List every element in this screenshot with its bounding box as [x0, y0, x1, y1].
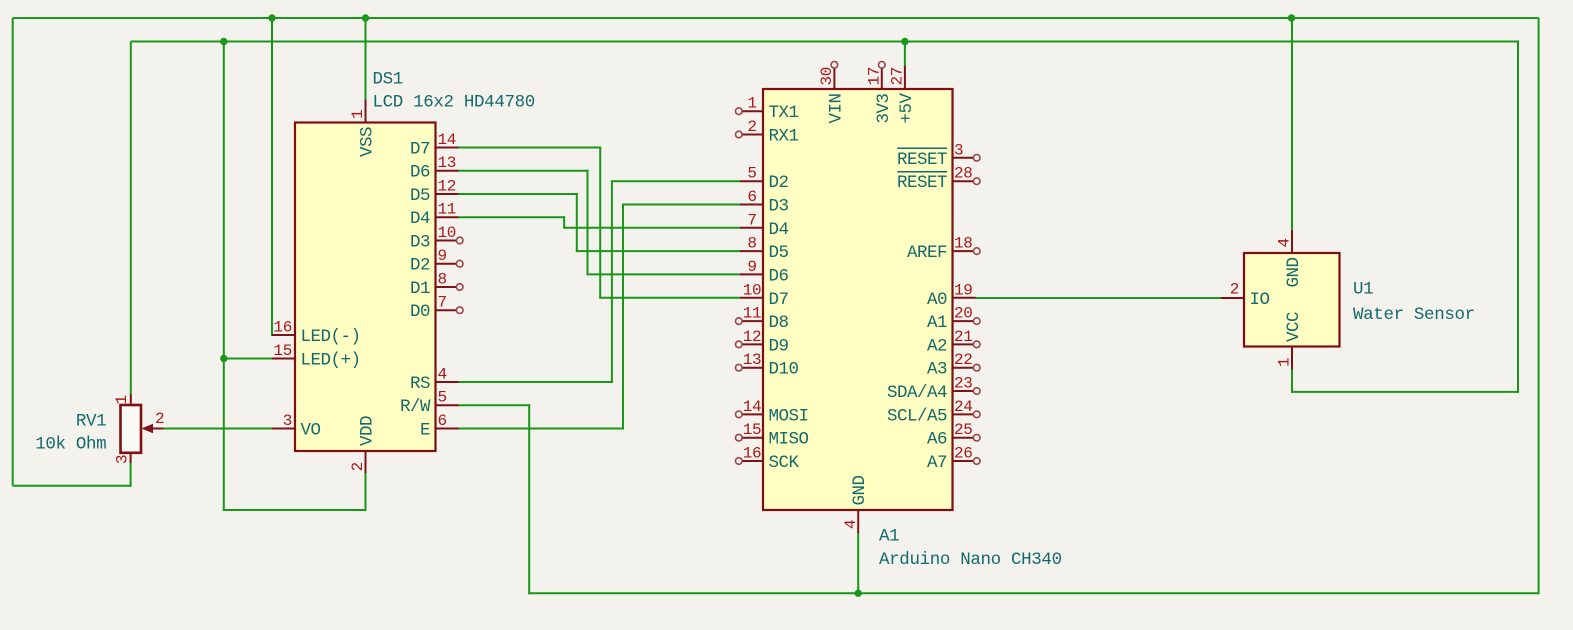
- svg-text:R/W: R/W: [400, 397, 431, 417]
- LCD pin 14 D7: [410, 131, 459, 160]
- svg-text:2: 2: [1230, 281, 1239, 299]
- wire to Arduino D6: [587, 273, 741, 275]
- svg-text:VDD: VDD: [358, 416, 378, 446]
- LCD value: [373, 93, 535, 113]
- svg-text:SCL/A5: SCL/A5: [887, 406, 947, 426]
- wire Arduino GND drop: [857, 532, 859, 594]
- wire +5V drop to Arduino: [904, 42, 906, 67]
- LCD pin 9 D2: [410, 247, 463, 276]
- RV1 pin 2 wiper: [142, 410, 165, 433]
- junction GND rail: [855, 590, 862, 597]
- U1 reference: [1353, 280, 1373, 300]
- LCD pin 10 D3: [410, 224, 463, 253]
- wire right edge vertical: [1538, 18, 1540, 594]
- LCD DS1 body: [295, 123, 436, 452]
- svg-text:D3: D3: [410, 233, 430, 253]
- svg-text:11: 11: [743, 305, 762, 323]
- svg-text:D5: D5: [410, 186, 430, 206]
- Arduino A1 body: [763, 89, 953, 510]
- svg-text:5: 5: [747, 165, 756, 183]
- svg-text:7: 7: [438, 294, 447, 312]
- svg-text:22: 22: [954, 351, 973, 369]
- svg-text:A3: A3: [927, 360, 947, 380]
- svg-text:D8: D8: [769, 313, 789, 333]
- wire RV1 wiper to VO: [164, 428, 274, 430]
- wire A0 to water sensor IO: [975, 297, 1222, 299]
- Arduino pin 8 D5: [740, 235, 789, 264]
- svg-text:23: 23: [954, 375, 973, 393]
- wire LCD RS horizontal: [459, 381, 613, 383]
- LCD pin 15 LED(+): [272, 342, 361, 371]
- svg-text:27: 27: [889, 67, 907, 86]
- svg-text:24: 24: [954, 398, 973, 416]
- svg-text:D0: D0: [410, 302, 430, 322]
- LCD pin 4 RS: [410, 366, 459, 395]
- Arduino pin 10 D7: [740, 281, 789, 310]
- svg-text:4: 4: [1276, 238, 1294, 247]
- svg-text:13: 13: [438, 154, 457, 172]
- svg-text:2: 2: [155, 410, 164, 428]
- svg-text:D6: D6: [410, 163, 430, 183]
- Arduino pin 14 MOSI: [736, 398, 809, 427]
- wire RV1 pin3 drop: [130, 463, 132, 487]
- LCD pin 13 D6: [410, 154, 459, 183]
- Arduino pin 1 TX1: [736, 95, 799, 124]
- LCD pin 16 LED(-): [272, 319, 361, 348]
- Arduino pin 6 D3: [740, 188, 789, 217]
- wire water sensor VCC drop: [1291, 369, 1293, 393]
- LCD pin 5 R/W: [400, 389, 459, 418]
- svg-text:AREF: AREF: [907, 243, 947, 263]
- svg-text:A7: A7: [927, 453, 947, 473]
- svg-text:25: 25: [954, 421, 973, 439]
- svg-text:12: 12: [743, 328, 762, 346]
- svg-text:A2: A2: [927, 336, 947, 356]
- svg-text:12: 12: [438, 178, 457, 196]
- svg-text:RV1: RV1: [76, 412, 106, 432]
- junction LED(-): [268, 14, 275, 21]
- wire LCD D7 horizontal: [459, 147, 602, 149]
- Arduino pin 27 +5V: [889, 66, 917, 124]
- LCD reference DS1: [373, 70, 403, 90]
- wire to Arduino D7: [599, 297, 740, 299]
- Arduino pin 23 SDA/A4: [887, 375, 980, 404]
- wire to LCD LED(+): [224, 358, 273, 360]
- water sensor U1 body: [1244, 253, 1340, 347]
- LCD pin 11 D4: [410, 201, 459, 230]
- Arduino pin 15 MISO: [736, 421, 809, 450]
- svg-text:14: 14: [438, 131, 457, 149]
- wire water sensor GND vertical: [1291, 18, 1293, 231]
- svg-text:VO: VO: [301, 421, 321, 441]
- Arduino pin 28 RESET: [897, 165, 980, 194]
- wire bottom GND rail: [528, 592, 1538, 594]
- Arduino pin 13 D10: [736, 351, 799, 380]
- svg-text:19: 19: [954, 281, 973, 299]
- svg-text:3: 3: [283, 412, 292, 430]
- svg-text:30: 30: [818, 67, 836, 86]
- wire RV1 pin1 vertical: [130, 42, 132, 395]
- wire LCD D7 vertical: [599, 147, 601, 298]
- wire LCD D5 vertical: [576, 193, 578, 251]
- svg-text:Arduino Nano CH340: Arduino Nano CH340: [879, 550, 1062, 570]
- wire VSS vertical: [365, 18, 367, 101]
- svg-text:10: 10: [438, 224, 457, 242]
- svg-text:3: 3: [114, 455, 132, 464]
- svg-text:RESET: RESET: [897, 173, 947, 193]
- svg-text:5: 5: [438, 389, 447, 407]
- U1 pin 4 GND: [1276, 230, 1304, 288]
- wire to Arduino D4: [563, 227, 740, 229]
- Arduino pin 16 SCK: [736, 445, 800, 474]
- wire LCD D4 vertical: [563, 216, 565, 228]
- svg-text:D2: D2: [410, 256, 430, 276]
- Arduino pin 18 AREF: [907, 235, 980, 264]
- svg-text:8: 8: [747, 235, 756, 253]
- Arduino pin 24 SCL/A5: [887, 398, 980, 427]
- svg-text:A1: A1: [879, 527, 899, 547]
- svg-text:14: 14: [743, 398, 762, 416]
- LCD pin 7 D0: [410, 294, 463, 323]
- svg-text:GND: GND: [1284, 258, 1304, 288]
- svg-text:18: 18: [954, 235, 973, 253]
- wire VDD vertical: [365, 473, 367, 511]
- svg-text:15: 15: [273, 342, 292, 360]
- Arduino pin 3 RESET: [897, 141, 980, 170]
- svg-text:D4: D4: [769, 220, 789, 240]
- svg-text:SCK: SCK: [769, 453, 800, 473]
- svg-text:15: 15: [743, 421, 762, 439]
- svg-text:D7: D7: [410, 140, 430, 160]
- svg-text:GND: GND: [850, 475, 870, 505]
- U1 pin 1 VCC: [1276, 312, 1304, 370]
- wire VCC horizontal: [1291, 391, 1518, 393]
- svg-text:D1: D1: [410, 279, 430, 299]
- svg-text:1: 1: [747, 95, 756, 113]
- wire RS vertical: [611, 180, 613, 383]
- Arduino value: [879, 550, 1062, 570]
- svg-text:D7: D7: [769, 290, 789, 310]
- svg-text:17: 17: [866, 67, 884, 86]
- svg-text:7: 7: [747, 211, 756, 229]
- svg-text:2: 2: [747, 118, 756, 136]
- U1 value: [1353, 305, 1475, 325]
- svg-text:D10: D10: [769, 360, 799, 380]
- Arduino pin 17 3V3: [866, 62, 894, 124]
- svg-text:LED(+): LED(+): [301, 351, 361, 371]
- svg-text:13: 13: [743, 351, 762, 369]
- svg-text:1: 1: [1276, 358, 1294, 367]
- Arduino pin 9 D6: [740, 258, 789, 287]
- wire left vertical: [12, 18, 14, 486]
- Arduino pin 19 A0: [927, 281, 976, 310]
- svg-text:LCD 16x2 HD44780: LCD 16x2 HD44780: [373, 93, 535, 113]
- svg-text:D9: D9: [769, 336, 789, 356]
- Arduino pin 12 D9: [736, 328, 789, 357]
- potentiometer RV1 body: [121, 405, 142, 453]
- junction rail2/VDD: [220, 38, 227, 45]
- svg-text:IO: IO: [1250, 290, 1270, 310]
- RV1 reference: [76, 412, 106, 432]
- Arduino pin 11 D8: [736, 305, 789, 334]
- wire LCD D4 horizontal: [459, 216, 566, 218]
- LCD pin 8 D1: [410, 271, 463, 300]
- svg-text:SDA/A4: SDA/A4: [887, 383, 947, 403]
- Arduino pin 21 A2: [927, 328, 980, 357]
- junction +5V: [901, 38, 908, 45]
- svg-text:28: 28: [954, 165, 973, 183]
- svg-text:8: 8: [438, 271, 447, 289]
- svg-text:1: 1: [349, 110, 367, 119]
- svg-text:Water Sensor: Water Sensor: [1353, 305, 1475, 325]
- Arduino reference A1: [879, 527, 899, 547]
- wire R/W vertical: [528, 404, 530, 594]
- LCD pin 1 VSS: [349, 100, 377, 158]
- wire vertical to VDD/LED+: [223, 42, 225, 511]
- svg-text:1: 1: [113, 395, 131, 404]
- Arduino pin 25 A6: [927, 421, 980, 450]
- wire LCD E horizontal: [459, 428, 625, 430]
- LCD pin 3 VO: [272, 412, 321, 441]
- svg-text:VCC: VCC: [1284, 312, 1304, 342]
- svg-text:D3: D3: [769, 197, 789, 217]
- svg-text:10: 10: [743, 281, 762, 299]
- Arduino pin 26 A7: [927, 445, 980, 474]
- LCD pin 2 VDD: [349, 416, 377, 473]
- wire LCD D6 vertical: [587, 170, 589, 275]
- Arduino pin 30 VIN: [818, 62, 846, 124]
- wire second rail: [131, 41, 1518, 43]
- wire E vertical: [622, 204, 624, 430]
- wire top rail +5V: [13, 17, 1539, 19]
- svg-text:9: 9: [438, 247, 447, 265]
- wire LCD D6 horizontal: [459, 170, 589, 172]
- svg-text:RESET: RESET: [897, 150, 947, 170]
- RV1 pin 1: [113, 394, 131, 405]
- svg-text:11: 11: [438, 201, 457, 219]
- svg-text:LED(-): LED(-): [301, 327, 361, 347]
- U1 pin 2 IO: [1221, 281, 1270, 311]
- RV1 pin 3: [114, 453, 132, 464]
- junction LED(+): [220, 355, 227, 362]
- svg-text:D6: D6: [769, 266, 789, 286]
- svg-text:A1: A1: [927, 313, 947, 333]
- svg-text:RS: RS: [410, 374, 430, 394]
- svg-text:9: 9: [747, 258, 756, 276]
- svg-text:4: 4: [438, 366, 447, 384]
- RV1 value: [35, 435, 106, 455]
- Arduino pin 20 A1: [927, 305, 980, 334]
- svg-text:+5V: +5V: [897, 93, 917, 124]
- svg-text:D5: D5: [769, 243, 789, 263]
- svg-text:DS1: DS1: [373, 70, 403, 90]
- svg-text:20: 20: [954, 305, 973, 323]
- wire LED(-) vertical: [271, 18, 273, 336]
- svg-text:TX1: TX1: [769, 103, 799, 123]
- svg-text:E: E: [420, 421, 430, 441]
- svg-text:A6: A6: [927, 430, 947, 450]
- wire to Arduino D2: [611, 180, 740, 182]
- svg-text:VSS: VSS: [358, 127, 378, 157]
- svg-text:16: 16: [273, 319, 292, 337]
- wire to Arduino D3: [622, 204, 740, 206]
- svg-text:3V3: 3V3: [874, 94, 894, 124]
- svg-text:D4: D4: [410, 209, 430, 229]
- svg-text:21: 21: [954, 328, 973, 346]
- LCD pin 6 E: [420, 412, 459, 441]
- svg-text:26: 26: [954, 445, 973, 463]
- junction VSS: [362, 14, 369, 21]
- svg-text:6: 6: [747, 188, 756, 206]
- svg-text:D2: D2: [769, 173, 789, 193]
- svg-text:MOSI: MOSI: [769, 406, 809, 426]
- Arduino pin 5 D2: [740, 165, 789, 194]
- svg-text:10k Ohm: 10k Ohm: [35, 435, 106, 455]
- svg-text:4: 4: [842, 520, 860, 529]
- svg-text:MISO: MISO: [769, 430, 809, 450]
- svg-text:RX1: RX1: [769, 127, 799, 147]
- Arduino pin 4 GND: [842, 475, 870, 533]
- svg-text:A0: A0: [927, 290, 947, 310]
- junction U1 GND: [1288, 14, 1295, 21]
- Arduino pin 7 D4: [740, 211, 789, 240]
- wire to Arduino D5: [576, 250, 740, 252]
- wire right-inner vertical: [1517, 41, 1519, 393]
- svg-text:6: 6: [438, 412, 447, 430]
- wire bottom-left horizontal: [13, 485, 132, 487]
- Arduino pin 22 A3: [927, 351, 980, 380]
- svg-text:16: 16: [743, 445, 762, 463]
- wire VDD horizontal: [223, 509, 366, 511]
- wire LCD D5 horizontal: [459, 193, 578, 195]
- svg-text:VIN: VIN: [826, 94, 846, 124]
- wire LCD R/W horizontal: [459, 404, 531, 406]
- Arduino pin 2 RX1: [736, 118, 799, 147]
- svg-text:U1: U1: [1353, 280, 1373, 300]
- LCD pin 12 D5: [410, 178, 459, 207]
- svg-text:3: 3: [954, 141, 963, 159]
- svg-text:2: 2: [349, 462, 367, 471]
